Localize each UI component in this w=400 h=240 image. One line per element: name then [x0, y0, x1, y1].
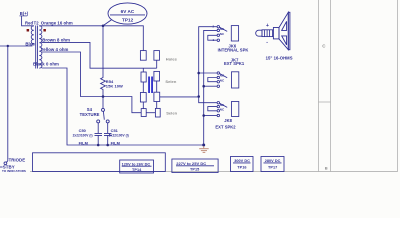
wire row4 between	[146, 112, 155, 114]
svg-text:2: 2	[213, 25, 215, 29]
transformer T2 core	[36, 26, 38, 69]
leads row3 to row4	[143, 102, 156, 109]
lead row2 left top	[142, 68, 144, 72]
svg-text:Selen: Selen	[165, 79, 176, 84]
node B(+) wire	[22, 16, 34, 26]
resistor R54	[101, 26, 106, 97]
svg-text:NC: NC	[220, 32, 225, 36]
wire stby drop	[7, 46, 8, 162]
svg-text:227V to 25V DC: 227V to 25V DC	[176, 161, 206, 166]
svg-text:Blue: Blue	[25, 41, 35, 46]
svg-text:Black 0 ohm: Black 0 ohm	[33, 62, 59, 67]
sheet border right column	[30, 0, 398, 172]
svg-text:Selen: Selen	[166, 110, 177, 115]
svg-text:TEXTURE: TEXTURE	[80, 112, 100, 117]
svg-text:T2: T2	[34, 20, 40, 25]
wire jack sleeve bus	[204, 30, 217, 145]
svg-text:TP15: TP15	[190, 168, 199, 172]
switch TRIODE contact	[4, 162, 7, 165]
wire black 0 ohm tap / ground bus	[42, 68, 204, 145]
transformer phase dot right	[43, 29, 46, 32]
transformer phase dot left	[27, 29, 30, 32]
svg-text:Holes: Holes	[166, 56, 178, 61]
speaker plug	[256, 30, 273, 37]
svg-text:TRIODE: TRIODE	[9, 157, 26, 162]
terminal block row1	[140, 51, 198, 117]
test point box TP15	[172, 159, 218, 173]
svg-text:TP12: TP12	[122, 18, 134, 23]
terminal block row4	[141, 109, 146, 117]
svg-text:TP16: TP16	[237, 166, 246, 170]
lead row1 right to brown	[156, 60, 158, 68]
svg-text:TP17: TP17	[268, 166, 277, 170]
speaker 15in	[273, 12, 290, 49]
jack JK6 internal spk	[208, 26, 239, 42]
svg-text:INTERNAL SPK: INTERNAL SPK	[218, 48, 249, 53]
svg-text:C51: C51	[111, 128, 119, 133]
chassis ground	[199, 146, 209, 152]
svg-text:EXT SPK2: EXT SPK2	[215, 124, 236, 129]
svg-text:NC: NC	[220, 108, 225, 112]
svg-text:NC: NC	[220, 78, 225, 82]
wire STBY	[0, 166, 3, 168]
test point box TP17	[261, 157, 284, 172]
svg-text:EXT SPK1: EXT SPK1	[224, 61, 245, 66]
wire orange 16 ohm tap	[39, 26, 143, 51]
svg-text:TO INDICATORS: TO INDICATORS	[2, 169, 26, 173]
svg-text:B(+): B(+)	[20, 11, 29, 16]
svg-text:NC: NC	[220, 74, 225, 78]
transformer T2 secondary winding	[39, 26, 42, 68]
terminal block row2	[141, 72, 146, 82]
capacitor C50	[95, 123, 103, 145]
capacitor C51	[104, 123, 112, 145]
jack JK8 ext spk2	[204, 102, 239, 117]
test point box TP14	[120, 160, 154, 173]
wire jack tip bus	[199, 27, 217, 145]
svg-text:Yellow 4 ohm: Yellow 4 ohm	[41, 47, 69, 52]
capacitor blue element	[148, 77, 150, 94]
wire brown 8 ohm tap	[42, 42, 157, 68]
svg-text:6V AC: 6V AC	[121, 9, 135, 14]
svg-text:-: -	[266, 40, 268, 46]
svg-text:NC: NC	[220, 103, 225, 107]
svg-text:5x22/100V (I): 5x22/100V (I)	[109, 134, 129, 138]
svg-text:280V DC: 280V DC	[265, 159, 281, 163]
transformer T2 primary winding	[31, 26, 34, 44]
switch S4 TEXTURE	[97, 97, 110, 123]
wire yellow 4 ohm tap	[42, 52, 142, 113]
svg-text:120V to 26V DC: 120V to 26V DC	[122, 162, 151, 166]
svg-text:JK8: JK8	[224, 118, 232, 123]
svg-text:+: +	[266, 23, 269, 29]
svg-text:NC: NC	[220, 27, 225, 31]
svg-text:1: 1	[213, 38, 215, 42]
svg-text:2x22/100V (I): 2x22/100V (I)	[73, 134, 93, 138]
wire primary bottom to plate (Blue)	[0, 44, 34, 46]
svg-text:Red: Red	[25, 20, 33, 25]
assembly outline box	[33, 153, 166, 172]
svg-text:FILM: FILM	[79, 140, 88, 145]
test point box TP16	[231, 157, 254, 172]
jack JK7 ext spk1	[199, 72, 239, 88]
wire row3 right to jacks	[160, 96, 199, 98]
test point TP12 balloon	[103, 3, 147, 26]
svg-text:Brown 8 ohm: Brown 8 ohm	[42, 37, 70, 42]
svg-text:C50: C50	[79, 128, 86, 133]
svg-text:15K 10W: 15K 10W	[106, 84, 123, 89]
terminal block row3	[140, 93, 146, 103]
svg-text:300V DC: 300V DC	[234, 159, 250, 163]
leads row2 to row3	[143, 81, 156, 93]
svg-text:Orange 16 ohm: Orange 16 ohm	[41, 20, 73, 25]
svg-text:B: B	[325, 166, 328, 171]
svg-text:15" 16-OHMS: 15" 16-OHMS	[266, 55, 293, 60]
svg-text:FILM: FILM	[111, 140, 120, 145]
svg-text:TP14: TP14	[132, 168, 142, 172]
